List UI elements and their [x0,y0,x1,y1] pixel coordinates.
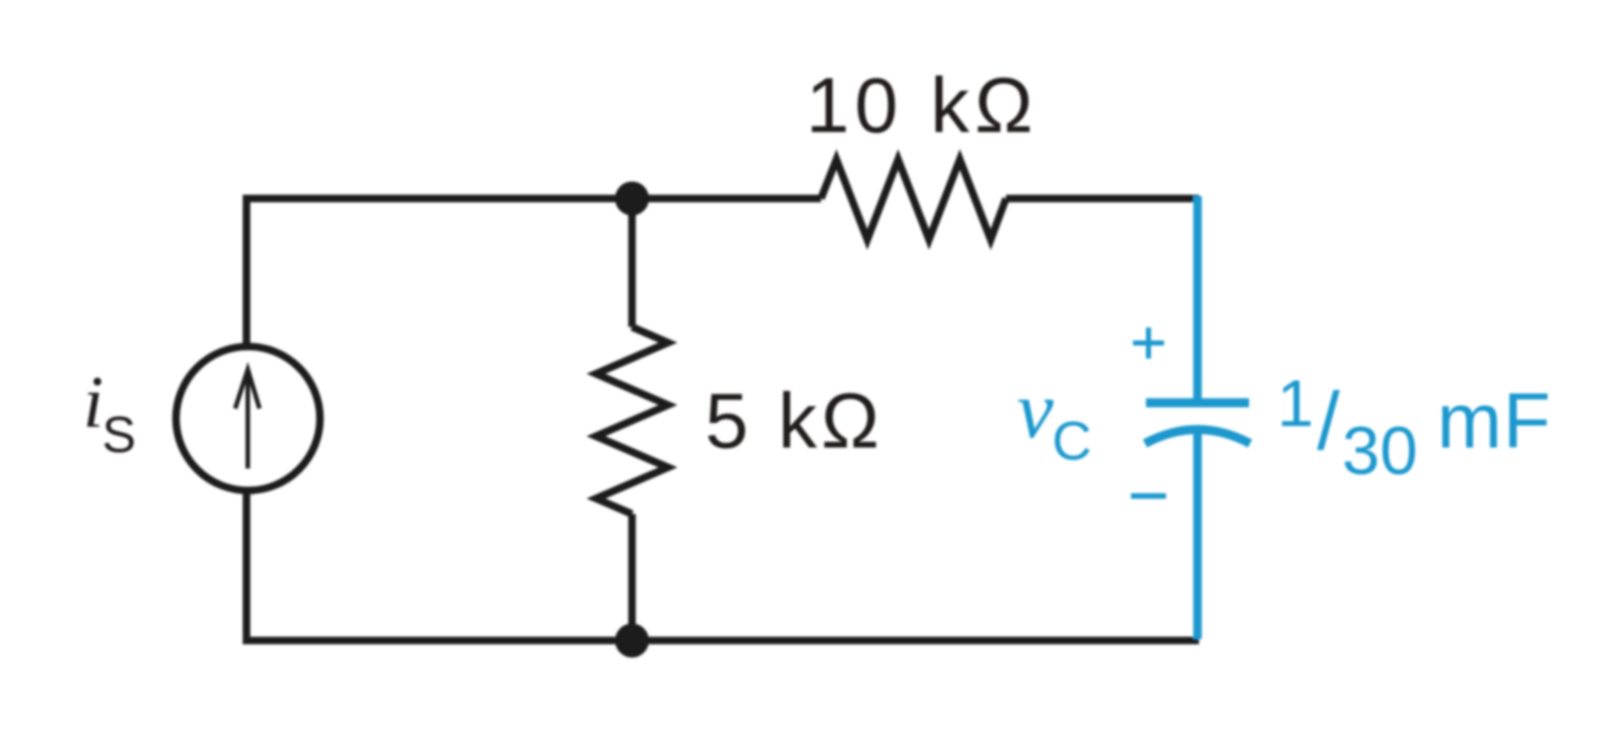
svg-text:i: i [83,362,104,444]
capacitor C: top plate [1146,398,1249,407]
capacitor C: top lead (blue wire from top-right corner down to plate) [1193,196,1202,399]
svg-text:C: C [1052,410,1092,472]
svg-text:30: 30 [1342,413,1418,489]
resistor 10k: horizontal zigzag [821,160,1006,240]
capacitor C: curved bottom plate [1145,430,1250,444]
svg-text:1: 1 [1277,366,1314,440]
svg-text:5 kΩ: 5 kΩ [705,377,883,465]
capacitor C: bottom lead (blue wire from plate to bottom wire) [1193,429,1202,639]
resistor 5k: vertical zigzag [596,327,668,514]
svg-text:10 kΩ: 10 kΩ [806,61,1038,149]
wire: top-left corner (left vertical + top horizontal to 10k resistor) [247,199,822,346]
polarity minus sign [1131,493,1166,499]
svg-text:v: v [1017,364,1054,455]
node A: junction dot top (5k to top wire) [615,182,649,216]
current source i_s: arrow shaft [246,370,251,469]
wire: bottom-left corner (left vertical below source + bottom horizontal) [247,490,1200,641]
svg-text:mF: mF [1437,377,1552,465]
wire: middle vertical from top node to 5k resistor [628,199,636,328]
svg-text:/: / [1317,376,1340,467]
polarity plus sign [1133,328,1164,359]
current source i_s: circle [176,347,320,491]
node B: junction dot bottom (5k to bottom wire) [615,624,649,658]
wire: middle vertical from 5k resistor to bottom node [628,514,636,641]
wire: top segment between 10k resistor and top-right corner [1006,195,1199,203]
current source i_s: arrow head [235,370,259,409]
svg-text:S: S [102,406,136,463]
